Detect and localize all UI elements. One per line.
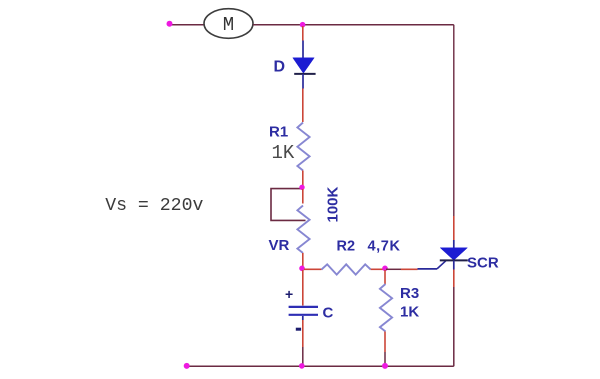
capacitor C xyxy=(289,307,318,320)
resistor R1 xyxy=(297,123,309,171)
wire diode cathode to R1 xyxy=(302,89,304,123)
svg-text:R2: R2 xyxy=(337,239,356,255)
wire top junction to diode anode xyxy=(302,26,304,41)
wire right vertical upper segment xyxy=(453,25,455,216)
resistor R2 xyxy=(322,264,371,274)
node wiper junction xyxy=(299,185,304,190)
wire VR wiper loop xyxy=(271,189,306,221)
svg-text:1K: 1K xyxy=(272,142,295,164)
wire junction to R2 xyxy=(304,268,322,270)
wire R2 to R3 junction xyxy=(371,268,384,270)
svg-text:100K: 100K xyxy=(325,186,342,222)
svg-text:VR: VR xyxy=(269,237,290,254)
svg-text:Vs = 220v: Vs = 220v xyxy=(105,196,203,216)
svg-text:R1: R1 xyxy=(269,124,288,141)
wire right vertical lower segment xyxy=(453,287,455,366)
wire gate junction down to capacitor xyxy=(302,270,304,306)
terminal node bottom-left xyxy=(184,363,190,369)
wire top-left terminal to motor xyxy=(170,24,205,26)
node R3 junction xyxy=(382,266,388,272)
svg-text:SCR: SCR xyxy=(467,255,499,272)
wire capacitor to bottom rail xyxy=(302,320,304,366)
svg-text:4,7K: 4,7K xyxy=(368,239,401,255)
motor M xyxy=(204,9,253,39)
svg-text:M: M xyxy=(223,14,234,36)
resistor R3 xyxy=(380,270,392,366)
node gate junction xyxy=(299,266,305,272)
svg-text:1K: 1K xyxy=(400,304,419,321)
potentiometer VR xyxy=(297,206,309,254)
wire VR to gate junction xyxy=(302,253,304,267)
node R3 bottom xyxy=(382,363,388,369)
svg-text:C: C xyxy=(323,305,334,322)
svg-text:D: D xyxy=(274,59,286,76)
terminal node top-left xyxy=(167,21,173,27)
wire R1 to wiper junction xyxy=(302,171,304,188)
wire junction to VR top xyxy=(302,189,304,204)
wire motor to top junction to top-right corner xyxy=(253,24,454,26)
node top junction xyxy=(300,22,306,28)
label minus polarity xyxy=(296,328,301,331)
diode D xyxy=(293,41,316,89)
node capacitor bottom xyxy=(299,363,305,369)
wire bottom rail xyxy=(187,365,454,367)
svg-text:R3: R3 xyxy=(400,285,419,302)
wire gate junction to SCR gate xyxy=(386,261,446,270)
SCR xyxy=(440,216,468,287)
svg-text:+: + xyxy=(285,286,293,302)
